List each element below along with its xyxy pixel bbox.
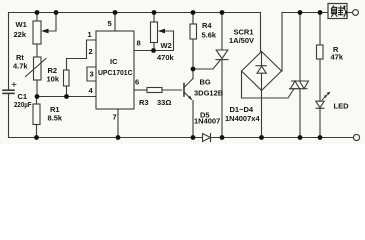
- node bridge bottom: [259, 135, 264, 140]
- svg-text:LED: LED: [334, 102, 350, 111]
- svg-text:UPC1701C: UPC1701C: [98, 68, 133, 77]
- potentiometer W2: [151, 13, 174, 51]
- svg-text:10k: 10k: [47, 75, 60, 84]
- node pin5 top: [113, 10, 118, 15]
- load box 负载: [328, 4, 353, 19]
- wire left border lower: [8, 94, 10, 138]
- diode D5: [203, 134, 211, 142]
- node W1 wiper top: [54, 10, 59, 15]
- svg-text:5: 5: [108, 19, 112, 28]
- svg-text:470k: 470k: [157, 53, 175, 62]
- svg-text:3DG12B: 3DG12B: [194, 89, 224, 98]
- node LED bottom: [318, 135, 323, 140]
- wire pin4 net: [37, 96, 96, 98]
- triac: [290, 13, 309, 138]
- bridge rectifier D1~D4: [242, 52, 282, 138]
- transistor BG 3DG12B: [184, 69, 193, 138]
- svg-text:R3: R3: [139, 98, 149, 107]
- node Rt R1: [35, 94, 40, 99]
- label load 负载 drawn as strokes: [331, 6, 347, 17]
- svg-text:R4: R4: [202, 21, 212, 30]
- thyristor SCR1: [216, 13, 228, 138]
- svg-text:8.5k: 8.5k: [48, 114, 63, 123]
- svg-text:W1: W1: [16, 20, 27, 29]
- resistor R1: [33, 97, 40, 138]
- svg-text:1N4007x4: 1N4007x4: [225, 114, 260, 123]
- svg-text:IC: IC: [110, 57, 118, 66]
- node pin7 bottom: [116, 135, 121, 140]
- svg-text:33Ω: 33Ω: [157, 98, 171, 107]
- resistor R 47k: [317, 13, 324, 102]
- potentiometer W1: [33, 13, 56, 58]
- wire pin6: [134, 89, 147, 91]
- node R2 bottom: [64, 94, 69, 99]
- node SCR cathode bottom: [220, 135, 225, 140]
- svg-text:D1~D4: D1~D4: [230, 105, 254, 114]
- node W2 bottom: [151, 48, 156, 53]
- wire bridge right feed: [281, 13, 283, 72]
- thermistor Rt: [26, 57, 47, 97]
- resistor R3: [147, 88, 182, 93]
- node W2 top: [152, 10, 157, 15]
- node R top: [318, 10, 323, 15]
- op-amp IC UPC1701C: [87, 13, 135, 110]
- resistor R2: [64, 59, 87, 97]
- wire pin8: [134, 50, 154, 52]
- svg-text:8: 8: [137, 39, 141, 48]
- node triac bottom: [298, 135, 303, 140]
- svg-text:BG: BG: [200, 78, 211, 87]
- svg-text:5.6k: 5.6k: [202, 31, 217, 40]
- node R4 top: [191, 10, 196, 15]
- wire left border upper: [8, 13, 10, 91]
- svg-text:4.7k: 4.7k: [13, 62, 28, 71]
- wire SCR gate: [193, 60, 221, 69]
- LED: [316, 92, 331, 138]
- wire bridge top feed: [260, 13, 262, 53]
- resistor R4: [190, 13, 197, 70]
- terminal top: [353, 10, 359, 16]
- svg-text:6: 6: [135, 78, 139, 87]
- svg-text:2: 2: [89, 47, 93, 56]
- node R1 bottom: [34, 135, 39, 140]
- wire pin7 to bottom: [117, 109, 119, 138]
- node SCR anode: [220, 10, 225, 15]
- svg-text:47k: 47k: [331, 53, 344, 62]
- svg-text:220µF: 220µF: [14, 100, 32, 109]
- terminal bottom: [353, 134, 359, 140]
- svg-text:1N4007: 1N4007: [194, 117, 220, 126]
- wire top rail left section: [9, 12, 261, 14]
- capacitor C1: [3, 83, 16, 94]
- node W1 top: [35, 10, 40, 15]
- node BG emitter bottom: [191, 135, 196, 140]
- svg-text:1A/50V: 1A/50V: [229, 36, 254, 45]
- svg-text:1: 1: [88, 30, 92, 39]
- node SCR gate: [191, 67, 196, 72]
- wire triac gate from bridge: [242, 71, 295, 98]
- wire top rail right section: [282, 12, 329, 14]
- wire bottom rail: [9, 137, 354, 139]
- svg-text:7: 7: [113, 113, 117, 122]
- svg-text:3: 3: [90, 70, 94, 79]
- svg-text:22k: 22k: [14, 30, 27, 39]
- svg-text:W2: W2: [161, 41, 172, 50]
- node triac top: [298, 10, 303, 15]
